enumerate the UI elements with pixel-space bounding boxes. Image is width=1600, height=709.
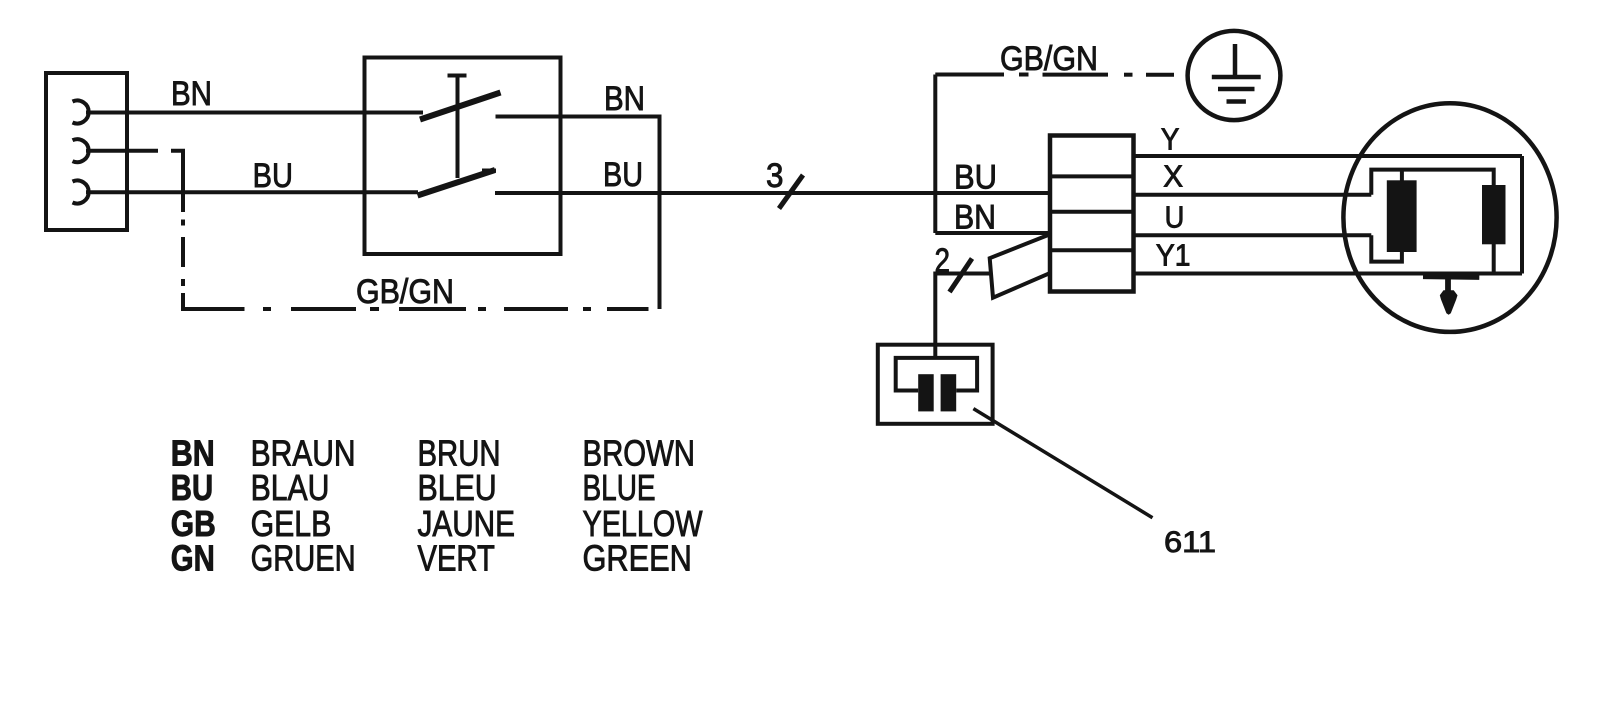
- capacitor plate 1: [918, 374, 934, 411]
- svg-text:Y1: Y1: [1156, 238, 1191, 273]
- wire 2-core branch to capacitor: [935, 274, 990, 358]
- pin 3 contact: [73, 180, 89, 203]
- motor winding 2: [1484, 187, 1504, 242]
- switch lever 2 end tick: [482, 169, 496, 173]
- motor brush bar: [1423, 274, 1479, 279]
- ground bar 3: [1227, 99, 1246, 104]
- svg-text:2: 2: [935, 242, 951, 280]
- pin 2 contact: [73, 139, 89, 162]
- svg-text:BN: BN: [171, 75, 212, 113]
- switch actuator link: [456, 76, 460, 178]
- motor shaft arrow head: [1440, 290, 1458, 315]
- wire GB/GN top run (dash-dot to ground): [1019, 73, 1029, 77]
- wire U to motor winding: [1134, 233, 1372, 237]
- svg-text:BU: BU: [253, 157, 293, 195]
- capacitor internal loop: [896, 358, 977, 391]
- svg-text:BN: BN: [604, 80, 645, 118]
- wire BN to terminal block: [935, 231, 1050, 235]
- switch lever 1 (BN pole): [420, 93, 501, 120]
- svg-text:GRUEN: GRUEN: [251, 537, 356, 578]
- leader line to 611: [973, 409, 1152, 518]
- switch S (double-pole) box: [365, 58, 561, 255]
- svg-text:GB/GN: GB/GN: [356, 273, 454, 311]
- slash mark 3-core: [779, 175, 803, 209]
- connector plug (left, 3-pin): [46, 73, 127, 230]
- wire GB/GN top run (solid part): [935, 73, 1004, 77]
- pin 1 contact: [73, 101, 89, 124]
- terminal block divider 2: [1050, 210, 1134, 214]
- ground symbol circle: [1188, 31, 1281, 120]
- wire GB/GN vertical riser at x=935: [933, 75, 937, 234]
- connector wedge to terminal block: [990, 234, 1052, 297]
- svg-text:GN: GN: [171, 537, 215, 578]
- ground bar 1: [1212, 75, 1261, 80]
- svg-text:3: 3: [766, 157, 784, 195]
- svg-text:U: U: [1165, 199, 1185, 234]
- svg-text:BU: BU: [603, 156, 643, 194]
- wire BU switch output across to terminal block: [495, 191, 1050, 195]
- wire BU from pin 3 into switch: [86, 190, 418, 194]
- wire right edge of motor loop: [1520, 156, 1524, 274]
- motor internal bracket (X feed): [1371, 170, 1493, 195]
- wire Y (top edge of motor loop): [1134, 154, 1523, 158]
- terminal block (4 cells): [1050, 136, 1134, 292]
- wire BN vertical drop at x=659.5: [658, 115, 662, 310]
- motor internal bracket (U feed): [1371, 235, 1402, 261]
- motor winding 1: [1389, 182, 1415, 250]
- wire stub from pin 2: [86, 149, 158, 153]
- wire Y1 (bottom edge of motor loop): [1134, 272, 1523, 276]
- capacitor 611 housing: [878, 345, 993, 424]
- terminal block divider 1: [1050, 174, 1134, 178]
- switch actuator T-bar: [448, 74, 467, 78]
- svg-text:BN: BN: [954, 199, 996, 237]
- ground stem: [1233, 44, 1238, 78]
- motor shaft arrow stem: [1445, 276, 1451, 291]
- motor M housing circle: [1343, 103, 1556, 332]
- wire X to motor winding: [1134, 193, 1372, 197]
- svg-text:611: 611: [1164, 526, 1216, 559]
- capacitor plate 2: [941, 374, 957, 411]
- svg-text:BU: BU: [954, 159, 997, 197]
- wire BN switch output to corner: [496, 115, 660, 119]
- wire BN from pin 1 to switch: [86, 111, 423, 115]
- slash mark 2-core: [950, 259, 973, 293]
- svg-text:VERT: VERT: [418, 537, 495, 578]
- motor winding 1 top stub: [1400, 170, 1404, 183]
- switch lever 2 (BU pole): [418, 170, 496, 196]
- motor winding 2 bottom stub: [1492, 242, 1496, 273]
- svg-text:GB/GN: GB/GN: [1000, 40, 1098, 78]
- terminal block divider 3: [1050, 248, 1134, 252]
- svg-text:Y: Y: [1161, 122, 1180, 157]
- svg-text:X: X: [1163, 159, 1183, 194]
- wire GB/GN dash-dot (pin2 down, along bottom, up to BN corner): [171, 151, 183, 212]
- ground bar 2: [1218, 87, 1255, 92]
- svg-text:GREEN: GREEN: [583, 537, 692, 578]
